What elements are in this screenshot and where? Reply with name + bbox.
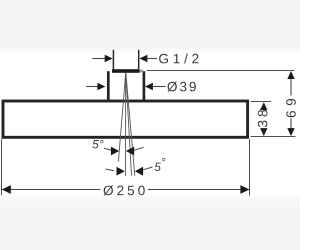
69 value label rotated — [286, 99, 296, 117]
5deg upper arrow left — [111, 147, 119, 156]
69 dimension line lower segment — [290, 119, 292, 129]
D39 dimension line left segment — [86, 86, 99, 88]
connector nut dark bar — [112, 69, 140, 73]
spray axis centre line — [125, 73, 127, 176]
5deg lower arrow right — [135, 167, 143, 176]
38 arrow down — [260, 128, 267, 136]
D250 value label — [103, 185, 144, 195]
spray cone line mid right — [126, 73, 132, 176]
69 dimension line upper segment — [290, 79, 292, 96]
G1/2 arrow left — [105, 55, 113, 62]
D250 dimension line left segment — [2, 189, 101, 191]
connector nut grey tail — [140, 70, 144, 73]
5deg upper arrow right — [126, 147, 134, 156]
G1/2 stub left wall — [112, 50, 114, 70]
5deg lower label — [154, 158, 165, 171]
D250 extension line right — [249, 139, 251, 196]
connector block right edge — [143, 71, 146, 101]
5deg upper leader left — [104, 148, 112, 150]
extension line block top to 69 dim — [147, 70, 295, 72]
5deg upper leader right — [134, 147, 144, 150]
G1/2 dimension line left segment — [92, 58, 106, 60]
G1/2 stub right wall — [138, 50, 140, 70]
D250 arrow right outward — [240, 185, 249, 194]
connector block left edge — [107, 71, 110, 101]
spray cone line outer right — [126, 73, 135, 176]
69 arrow down — [287, 128, 294, 136]
shower plate outline — [3, 101, 248, 137]
D39 value label — [167, 82, 195, 92]
5deg lower arrow left — [117, 167, 125, 176]
5deg lower leader left — [106, 169, 115, 171]
D39 arrow left — [97, 83, 105, 90]
69 arrow up — [287, 71, 294, 79]
D250 dimension line right segment — [148, 189, 249, 191]
D250 extension line left — [1, 139, 3, 195]
extension line plate top to 38 dim — [251, 101, 272, 103]
D250 arrow left outward — [2, 185, 11, 194]
D39 arrow right — [145, 83, 153, 90]
D39 dimension line right segment — [152, 86, 166, 88]
G1/2 dimension line right segment — [147, 58, 158, 60]
5deg upper label — [92, 140, 103, 149]
38 value label rotated — [258, 110, 268, 127]
extension line plate bottom to dims — [251, 136, 296, 138]
G1/2 value label — [159, 53, 198, 63]
G1/2 arrow right — [139, 55, 147, 62]
38 arrow up — [260, 102, 267, 110]
spray cone line outer left — [118, 73, 125, 162]
5deg lower leader right — [143, 167, 153, 170]
